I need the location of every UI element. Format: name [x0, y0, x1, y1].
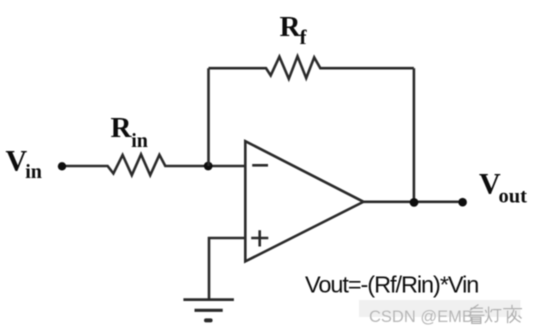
watermark glyph kan [469, 305, 485, 324]
watermark glyph deng [485, 307, 502, 323]
wire: non-inverting input to ground [209, 238, 245, 300]
svg-text:R: R [111, 112, 133, 144]
svg-text:in: in [25, 161, 42, 183]
svg-text:CSDN @EMB: CSDN @EMB [369, 308, 473, 326]
op-amp U1 triangle [245, 141, 363, 261]
watermark glyph ye [503, 305, 522, 323]
wire: output [364, 201, 463, 204]
svg-text:out: out [499, 185, 528, 207]
node: inverting input junction dot [204, 162, 213, 171]
wire: feedback top with resistor Rf zigzag [209, 56, 414, 79]
wire: input with resistor Rin zigzag [62, 154, 245, 175]
node: output junction dot [410, 198, 419, 207]
svg-text:Vout=-(Rf/Rin)*Vin: Vout=-(Rf/Rin)*Vin [305, 272, 478, 298]
node: Vin terminal dot [58, 162, 66, 170]
ground symbol [183, 300, 234, 321]
svg-text:R: R [280, 11, 302, 43]
wire: left vertical of feedback loop [207, 68, 210, 166]
op-amp plus input sign [251, 230, 268, 246]
svg-text:V: V [6, 144, 28, 177]
wire: right vertical of feedback loop [413, 68, 416, 202]
op-amp minus input sign [252, 164, 268, 167]
node: Vout terminal dot [458, 198, 467, 207]
watermark background [359, 300, 521, 317]
svg-text:f: f [300, 25, 308, 49]
svg-text:in: in [131, 130, 148, 152]
